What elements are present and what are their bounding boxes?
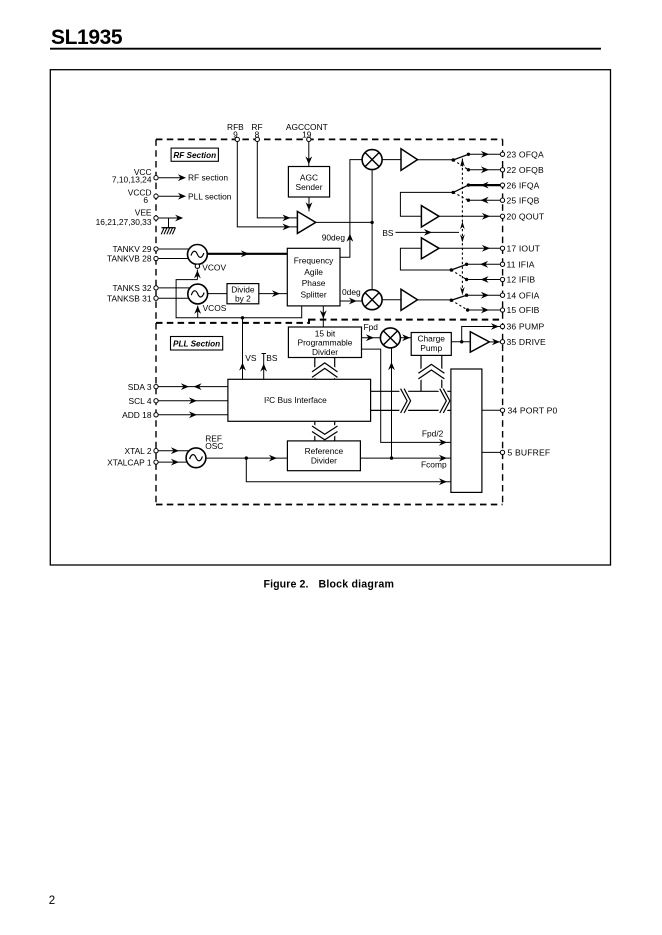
svg-text:22 OFQB: 22 OFQB (507, 165, 544, 175)
svg-text:I²C Bus Interface: I²C Bus Interface (264, 395, 327, 405)
svg-text:6: 6 (143, 195, 148, 205)
svg-text:SCL 4: SCL 4 (129, 396, 152, 406)
svg-text:0deg: 0deg (342, 287, 361, 297)
svg-text:VEE: VEE (135, 208, 152, 218)
svg-text:BS: BS (266, 353, 278, 363)
svg-text:XTAL 2: XTAL 2 (125, 446, 152, 456)
svg-text:36 PUMP: 36 PUMP (507, 322, 545, 332)
svg-text:RF Section: RF Section (173, 151, 216, 160)
svg-text:TANKV 29: TANKV 29 (113, 244, 152, 254)
svg-text:5 BUFREF: 5 BUFREF (508, 448, 551, 458)
svg-text:7,10,13,24: 7,10,13,24 (112, 175, 152, 185)
svg-text:11 IFIA: 11 IFIA (507, 260, 535, 270)
svg-text:17 IOUT: 17 IOUT (507, 244, 541, 254)
svg-text:Sender: Sender (295, 182, 322, 192)
svg-text:PLL Section: PLL Section (173, 340, 220, 349)
svg-text:OSC: OSC (205, 441, 223, 451)
svg-text:Block diagram: Block diagram (319, 579, 395, 591)
svg-text:23 OFQA: 23 OFQA (507, 150, 544, 160)
svg-text:90deg: 90deg (322, 233, 346, 243)
svg-text:Fpd: Fpd (364, 322, 379, 332)
svg-text:TANKVB 28: TANKVB 28 (107, 253, 152, 263)
svg-text:XTALCAP 1: XTALCAP 1 (107, 457, 152, 467)
svg-text:by 2: by 2 (235, 294, 251, 304)
svg-text:BS: BS (382, 228, 394, 238)
svg-text:34 PORT P0: 34 PORT P0 (508, 405, 558, 415)
svg-text:16,21,27,30,33: 16,21,27,30,33 (96, 217, 152, 227)
svg-text:RF section: RF section (188, 173, 228, 183)
svg-text:TANKS 32: TANKS 32 (113, 283, 152, 293)
svg-text:Splitter: Splitter (301, 290, 327, 300)
svg-text:Phase: Phase (302, 278, 326, 288)
svg-text:35 DRIVE: 35 DRIVE (507, 337, 547, 347)
svg-text:PLL section: PLL section (188, 191, 232, 201)
svg-text:25 IFQB: 25 IFQB (507, 195, 540, 205)
svg-text:SL1935: SL1935 (51, 26, 123, 49)
svg-text:VS: VS (245, 353, 257, 363)
svg-text:26 IFQA: 26 IFQA (507, 180, 540, 190)
svg-text:Figure 2.: Figure 2. (264, 579, 309, 591)
svg-text:AGC: AGC (300, 172, 318, 182)
svg-text:Fcomp: Fcomp (421, 460, 447, 470)
svg-text:14 OFIA: 14 OFIA (507, 290, 540, 300)
svg-text:15 OFIB: 15 OFIB (507, 305, 540, 315)
svg-text:VCOV: VCOV (202, 263, 226, 273)
svg-text:Divider: Divider (312, 347, 338, 357)
svg-text:TANKSB 31: TANKSB 31 (107, 293, 152, 303)
svg-text:VCOS: VCOS (203, 303, 227, 313)
svg-text:SDA 3: SDA 3 (128, 382, 152, 392)
svg-text:2: 2 (49, 895, 55, 907)
svg-text:Frequency: Frequency (294, 256, 334, 266)
svg-text:Divider: Divider (311, 455, 337, 465)
svg-text:20 QOUT: 20 QOUT (507, 212, 545, 222)
svg-text:Fpd/2: Fpd/2 (422, 428, 444, 438)
svg-text:ADD 18: ADD 18 (122, 410, 152, 420)
svg-text:Pump: Pump (420, 343, 442, 353)
svg-text:Agile: Agile (304, 267, 323, 277)
svg-text:12 IFIB: 12 IFIB (507, 275, 536, 285)
